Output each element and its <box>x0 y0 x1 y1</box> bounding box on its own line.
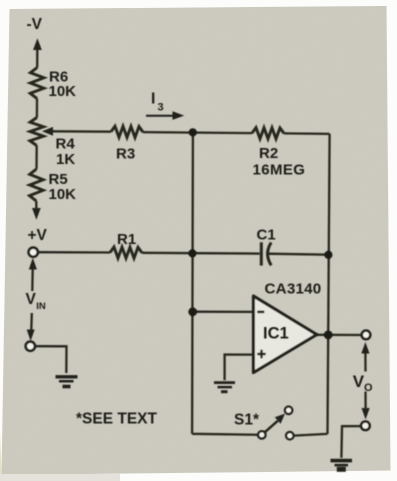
svg-text:+V: +V <box>28 227 48 244</box>
svg-text:IC1: IC1 <box>263 325 289 343</box>
svg-text:R2: R2 <box>259 145 278 162</box>
svg-text:10K: 10K <box>49 186 77 203</box>
svg-text:R4: R4 <box>56 136 76 153</box>
svg-text:I: I <box>151 91 155 108</box>
svg-text:16MEG: 16MEG <box>253 162 306 179</box>
svg-text:3: 3 <box>158 102 164 114</box>
svg-text:C1: C1 <box>257 227 276 244</box>
svg-text:S1*: S1* <box>234 412 260 429</box>
svg-text:R3: R3 <box>116 146 135 163</box>
svg-text:V: V <box>26 291 37 308</box>
svg-text:IN: IN <box>36 301 46 312</box>
svg-text:V: V <box>353 372 365 391</box>
svg-text:*SEE TEXT: *SEE TEXT <box>76 411 157 428</box>
svg-text:10K: 10K <box>49 83 77 100</box>
svg-text:R1: R1 <box>117 231 136 248</box>
svg-text:O: O <box>364 382 373 394</box>
svg-text:-V: -V <box>27 16 43 33</box>
svg-text:1K: 1K <box>56 151 75 168</box>
svg-text:CA3140: CA3140 <box>265 281 322 298</box>
